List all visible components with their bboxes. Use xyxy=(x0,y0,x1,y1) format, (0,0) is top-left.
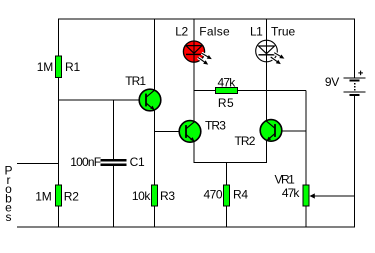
wire VR1 lower vertical xyxy=(305,185,307,227)
wire bottom rail (0V) xyxy=(17,226,355,228)
svg-text:True: True xyxy=(271,25,296,39)
wire TR1 collector vertical xyxy=(154,19,156,90)
LED L2 (False, red) xyxy=(183,41,211,65)
svg-text:1M: 1M xyxy=(35,189,51,203)
wire VR1 wiper horizontal xyxy=(311,195,355,197)
label Probes (vertical) xyxy=(4,164,12,225)
resistor R2 (1M) xyxy=(56,185,62,206)
wire battery negative vertical xyxy=(354,96,356,228)
wire probe input horizontal xyxy=(17,163,59,165)
svg-text:L1: L1 xyxy=(250,25,263,39)
wire C1 vertical lower xyxy=(113,166,115,228)
svg-text:s: s xyxy=(6,210,12,224)
resistor R1 (1M) xyxy=(56,56,62,78)
wire TR3 emitter vertical xyxy=(193,142,195,163)
resistor R4 (470) xyxy=(224,185,230,206)
svg-text:L2: L2 xyxy=(175,25,188,39)
transistor TR3 xyxy=(179,121,201,143)
wire top rail (+9V) xyxy=(58,18,355,20)
wire TR2 emitter vertical xyxy=(266,141,268,163)
wire C1 vertical upper xyxy=(113,100,115,160)
wire TR2 base horizontal xyxy=(275,130,306,132)
wire battery positive vertical xyxy=(354,19,356,78)
svg-text:C1: C1 xyxy=(130,155,145,169)
wire emitter rail horizontal xyxy=(194,162,267,164)
svg-text:47k: 47k xyxy=(218,76,237,90)
wire L1 anode vertical xyxy=(266,19,268,41)
variable resistor VR1 (47k) xyxy=(303,185,309,206)
svg-text:100nF: 100nF xyxy=(70,155,100,169)
resistor R5 (47k) xyxy=(216,88,238,94)
resistor R3 (10k) xyxy=(152,185,158,206)
svg-text:10k: 10k xyxy=(132,189,152,203)
svg-text:False: False xyxy=(199,25,230,39)
LED L1 (True) xyxy=(256,40,285,64)
wire R5 horizontal xyxy=(194,90,306,92)
wire R4 vertical xyxy=(226,162,228,227)
wire TR1 emitter vertical down to R3 xyxy=(154,111,156,228)
svg-text:TR3: TR3 xyxy=(205,119,226,133)
transistor TR1 xyxy=(139,89,161,111)
wire left vertical (probe input through R1/R2) xyxy=(58,19,60,227)
battery B1 9V xyxy=(344,71,366,96)
svg-text:R4: R4 xyxy=(233,188,248,202)
svg-text:TR1: TR1 xyxy=(125,74,146,88)
svg-text:VR1: VR1 xyxy=(274,173,295,187)
wire TR1 base horizontal xyxy=(59,99,147,101)
svg-text:R3: R3 xyxy=(160,189,175,203)
transistor TR2 (mirrored) xyxy=(260,120,282,142)
wire TR3 base horizontal xyxy=(155,131,187,133)
svg-text:470: 470 xyxy=(203,188,222,202)
capacitor C1 plates xyxy=(101,159,127,166)
svg-text:R5: R5 xyxy=(218,96,234,110)
VR1 wiper arrowhead xyxy=(310,193,315,198)
wire L1 cathode to TR2 collector vertical xyxy=(266,61,268,121)
svg-text:1M: 1M xyxy=(37,60,53,74)
wire L2 cathode to TR3 collector vertical xyxy=(193,62,195,122)
wire R5 right vertical to TR2 base and VR1 xyxy=(305,91,307,186)
svg-text:47k: 47k xyxy=(282,186,301,200)
svg-text:TR2: TR2 xyxy=(235,134,256,148)
svg-text:R1: R1 xyxy=(65,60,80,74)
svg-text:9V: 9V xyxy=(325,75,339,89)
svg-text:R2: R2 xyxy=(64,189,79,203)
wire L2 anode vertical xyxy=(193,19,195,42)
